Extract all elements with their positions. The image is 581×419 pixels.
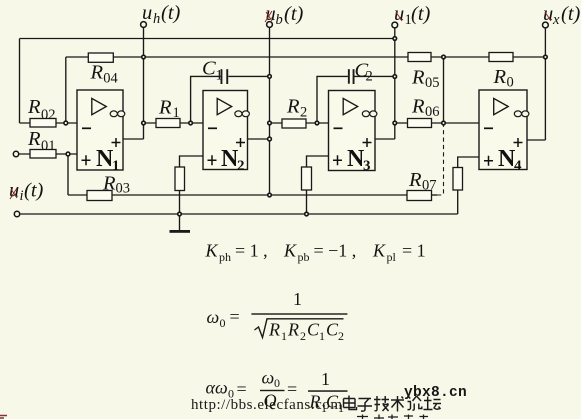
svg-text:(t): (t) bbox=[284, 3, 304, 25]
node label u1(t) bbox=[394, 3, 431, 28]
node N1 plus junction (open) bbox=[66, 152, 70, 156]
wire N2 plus to ground resistor bbox=[180, 156, 204, 214]
svg-text:3: 3 bbox=[363, 158, 371, 174]
resistor R04 bbox=[88, 53, 118, 86]
node C2 left bbox=[315, 121, 319, 125]
node label ub(t) bbox=[265, 3, 304, 28]
resistor R02 bbox=[27, 96, 56, 127]
svg-text:u: u bbox=[543, 3, 553, 25]
node ub/C1 bbox=[268, 75, 272, 79]
terminal ui input bbox=[13, 151, 18, 156]
svg-text:R: R bbox=[493, 66, 507, 88]
resistor R03 bbox=[87, 173, 130, 201]
svg-text:R: R bbox=[411, 67, 425, 89]
op-amp U2 N2 bbox=[203, 91, 249, 175]
svg-text:0: 0 bbox=[220, 316, 226, 330]
svg-text:R: R bbox=[102, 173, 116, 195]
svg-text:R: R bbox=[27, 128, 41, 150]
wire N2 output bbox=[248, 138, 270, 140]
wire R2 net ub to N3 minus bbox=[270, 122, 329, 124]
resistor R01 bbox=[27, 128, 56, 158]
wire R05 drop to N4 minus bbox=[443, 57, 445, 123]
terminal uh bbox=[141, 22, 147, 28]
svg-text:=: = bbox=[287, 379, 297, 399]
svg-text:01: 01 bbox=[41, 138, 56, 154]
formula alpha omega0 bbox=[206, 368, 348, 416]
svg-text:R: R bbox=[408, 169, 422, 191]
node u1/R06 bbox=[393, 121, 397, 125]
node label ux(t) bbox=[543, 3, 581, 28]
node uh/R1 bbox=[142, 121, 146, 125]
svg-text:pl: pl bbox=[387, 250, 397, 264]
svg-text:h: h bbox=[153, 11, 160, 27]
svg-text:pb: pb bbox=[298, 250, 310, 264]
svg-text:u: u bbox=[142, 2, 152, 24]
svg-text:04: 04 bbox=[103, 70, 118, 86]
svg-text:1: 1 bbox=[173, 105, 180, 121]
svg-text:(t): (t) bbox=[411, 3, 431, 25]
svg-text:0: 0 bbox=[274, 376, 280, 390]
node label ui(t) bbox=[9, 180, 44, 205]
wire R03/R07 net at y195 bbox=[68, 194, 407, 196]
wire R03 branch from N1 plus bbox=[67, 156, 69, 195]
svg-text:K: K bbox=[205, 241, 219, 261]
resistor N4 ground leg bbox=[453, 168, 463, 191]
wire top feedback bus (u1 to R02) bbox=[20, 39, 395, 124]
svg-text:(t): (t) bbox=[561, 3, 581, 25]
svg-text:http://bbs.elecfans.com: http://bbs.elecfans.com bbox=[191, 397, 342, 413]
svg-text:K: K bbox=[283, 241, 297, 261]
svg-text:=: = bbox=[237, 379, 247, 399]
svg-text:R: R bbox=[158, 97, 172, 119]
wire uh vertical / N1 output bbox=[123, 27, 144, 139]
node N1 minus junction (open) bbox=[64, 121, 68, 125]
resistor R1 bbox=[156, 97, 180, 128]
svg-text:R: R bbox=[90, 61, 104, 83]
svg-text:b: b bbox=[276, 12, 283, 28]
resistor R07 bbox=[407, 169, 437, 201]
left edge artifacts bbox=[0, 416, 7, 419]
wire N4 plus to ground resistor bbox=[458, 157, 479, 214]
capacitor C1 bbox=[202, 58, 228, 84]
wire ub vertical bbox=[269, 27, 271, 195]
resistor R0 bbox=[489, 53, 514, 91]
svg-text:1: 1 bbox=[112, 158, 120, 174]
svg-text:u: u bbox=[394, 3, 404, 25]
wire dashed link R07 to N4 minus bbox=[437, 125, 444, 196]
svg-text:ω: ω bbox=[207, 307, 220, 327]
watermark chinese forum text bbox=[344, 396, 442, 412]
svg-text:07: 07 bbox=[422, 178, 437, 194]
svg-text:03: 03 bbox=[116, 181, 131, 197]
svg-text:αω: αω bbox=[206, 378, 228, 398]
wire N1 minus input from R02 bbox=[20, 122, 78, 124]
svg-text:2: 2 bbox=[300, 329, 306, 343]
svg-text:(t): (t) bbox=[161, 2, 181, 24]
node label uh(t) bbox=[142, 2, 181, 27]
svg-text:= 1 ,: = 1 , bbox=[235, 241, 268, 261]
svg-text:06: 06 bbox=[425, 104, 440, 120]
resistor N3 ground leg bbox=[302, 167, 312, 190]
resistor R2 bbox=[282, 96, 307, 129]
svg-text:ω: ω bbox=[262, 368, 275, 388]
watermark partial bottom row bbox=[357, 415, 428, 419]
node uh/R04 bbox=[142, 55, 146, 59]
svg-text:= −1 ,: = −1 , bbox=[314, 241, 357, 261]
resistor N2 ground leg bbox=[175, 167, 185, 191]
svg-text:2: 2 bbox=[237, 158, 245, 174]
svg-text:02: 02 bbox=[41, 107, 56, 123]
svg-text:R: R bbox=[268, 320, 280, 340]
formula omega0 bbox=[207, 289, 348, 343]
node rail/ground bbox=[178, 212, 182, 216]
node R05/N4 minus bbox=[442, 55, 446, 59]
node ub/R2 bbox=[268, 121, 272, 125]
wire ux vertical / N4 output bbox=[527, 27, 545, 140]
op-amp U4 N4 bbox=[479, 90, 529, 174]
node ub/R03 net bbox=[268, 193, 272, 197]
svg-text:2: 2 bbox=[366, 69, 373, 85]
node C1 left bbox=[189, 121, 193, 125]
node R06/R05 bbox=[442, 121, 446, 125]
wire R04/R05 row at y57 bbox=[66, 57, 444, 121]
op-amp U1 N1 bbox=[77, 90, 125, 174]
node rail/N3 leg bbox=[305, 212, 309, 216]
wire C2 feedback loop bbox=[317, 76, 395, 123]
wire u1 vertical / N3 output bbox=[375, 27, 395, 139]
svg-text:ybx8.cn: ybx8.cn bbox=[404, 385, 467, 401]
terminal u1 bbox=[392, 22, 398, 28]
node ux/R0 bbox=[544, 55, 548, 59]
svg-text:1: 1 bbox=[319, 329, 325, 343]
svg-text:i: i bbox=[20, 188, 24, 204]
wire R1 net N1 out to N2 minus bbox=[144, 122, 204, 124]
svg-text:x: x bbox=[552, 12, 560, 28]
svg-text:R: R bbox=[287, 320, 299, 340]
svg-text:4: 4 bbox=[514, 158, 522, 174]
svg-text:R: R bbox=[411, 96, 425, 118]
terminal common input bbox=[14, 211, 19, 216]
svg-text:ph: ph bbox=[219, 250, 231, 264]
svg-text:1: 1 bbox=[321, 369, 330, 389]
svg-text:R: R bbox=[27, 96, 41, 118]
capacitor C2 bbox=[348, 60, 373, 85]
svg-text:1: 1 bbox=[216, 68, 223, 84]
svg-text:05: 05 bbox=[425, 75, 440, 91]
node N2 output junction (open) bbox=[268, 137, 272, 141]
wire R06 net u1 to N4 minus bbox=[395, 122, 479, 124]
formula K coefficients line bbox=[205, 241, 426, 265]
terminal ux bbox=[543, 22, 549, 28]
node u1/C2 bbox=[393, 75, 397, 79]
wire R07 right lead bbox=[432, 194, 438, 196]
wire N3 plus to ground resistor bbox=[307, 156, 329, 214]
node u1/top bus bbox=[393, 37, 397, 41]
terminal ub bbox=[267, 22, 273, 28]
svg-text:1: 1 bbox=[281, 329, 287, 343]
wire N1 plus input from R01 bbox=[19, 153, 78, 155]
svg-text:0: 0 bbox=[507, 75, 514, 91]
svg-text:2: 2 bbox=[300, 105, 307, 121]
svg-text:R: R bbox=[286, 96, 300, 118]
ground bbox=[179, 214, 181, 230]
resistor R06 bbox=[408, 96, 440, 128]
wire R0 row to ux bbox=[444, 56, 546, 58]
svg-text:= 1: = 1 bbox=[402, 241, 426, 261]
svg-text:(t): (t) bbox=[24, 180, 44, 202]
wire bottom common rail bbox=[20, 213, 458, 215]
svg-text:C: C bbox=[202, 58, 216, 80]
svg-text:1: 1 bbox=[293, 289, 302, 309]
svg-text:K: K bbox=[372, 241, 386, 261]
svg-text:=: = bbox=[230, 307, 240, 327]
op-amp U3 N3 bbox=[329, 91, 377, 175]
wire C1 feedback loop bbox=[191, 76, 270, 123]
svg-text:2: 2 bbox=[338, 329, 344, 343]
resistor R05 bbox=[408, 53, 440, 92]
